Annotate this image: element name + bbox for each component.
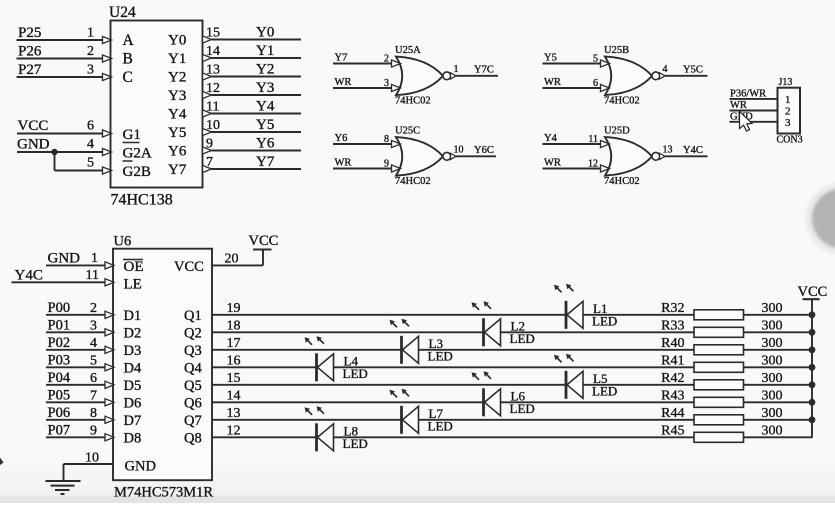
wire VCC to U24 pin 6 [17,118,112,137]
svg-text:300: 300 [762,301,783,316]
resistor R33 300 [661,318,782,337]
svg-text:7: 7 [206,155,213,170]
wire U24 pin 15 net Y0 [203,25,302,44]
svg-text:74HC02: 74HC02 [395,96,431,107]
junction dot on GND net [51,149,57,155]
svg-text:D8: D8 [124,430,142,446]
svg-text:Y0: Y0 [256,25,274,41]
svg-text:300: 300 [762,388,783,403]
svg-text:300: 300 [762,371,783,386]
svg-text:LED: LED [510,401,535,416]
wire input pin 5 of U25B [543,54,610,68]
svg-text:Q8: Q8 [184,430,202,446]
wire input pin 3 of U25A [333,78,401,92]
svg-text:D6: D6 [124,395,142,411]
wire WR to J13 pin 2 [730,100,778,111]
svg-text:300: 300 [762,423,783,438]
svg-text:R40: R40 [661,336,684,351]
svg-text:Y4C: Y4C [683,145,703,156]
svg-text:P05: P05 [48,388,71,404]
svg-text:C: C [123,69,133,86]
svg-text:GND: GND [17,137,50,153]
svg-text:P06: P06 [48,405,71,421]
svg-text:Q1: Q1 [184,308,202,324]
resistor R44 300 [661,406,782,425]
resistor R45 300 [661,423,782,442]
wire R33 to VCC rail [744,331,813,333]
svg-text:Y4: Y4 [256,99,275,115]
svg-text:G2A: G2A [123,146,152,162]
svg-text:P25: P25 [18,25,41,41]
svg-text:D2: D2 [124,325,142,341]
svg-text:6: 6 [90,371,97,386]
svg-text:Q3: Q3 [184,343,202,359]
svg-text:Y3: Y3 [256,80,274,96]
svg-text:LED: LED [343,366,368,381]
wire U6 pin 16 (Q4) to resistor R41 [212,353,695,368]
svg-text:P02: P02 [48,335,71,351]
wire R41 to VCC rail [744,366,813,368]
wire U24 pin 14 net Y1 [203,43,302,62]
svg-text:D7: D7 [124,413,142,429]
wire P04 to U6 pin 6 (D5) [46,370,114,388]
LED L1 [554,284,617,329]
svg-text:2: 2 [90,301,97,316]
svg-text:WR: WR [730,100,747,111]
svg-text:WR: WR [335,158,352,169]
wire R32 to VCC rail [744,314,813,316]
svg-text:Y2: Y2 [256,62,274,78]
svg-text:CON3: CON3 [777,135,803,146]
wire R43 to VCC rail [744,401,813,403]
wire P05 to U6 pin 7 (D6) [46,388,114,406]
LED L8 [305,406,368,451]
wire output pin 4 of U25B net Y5C [663,64,708,76]
junction dot VCC rail row 4 [809,364,816,371]
svg-text:R42: R42 [661,371,684,386]
svg-text:U24: U24 [109,4,136,21]
LED L5 [554,354,617,399]
svg-text:D1: D1 [124,308,142,324]
svg-text:9: 9 [206,137,213,152]
wire P02 to U6 pin 4 (D3) [46,335,114,353]
svg-text:LED: LED [510,331,535,346]
svg-text:15: 15 [227,371,241,386]
wire P25 to U24 pin 1 [17,25,112,44]
svg-text:D4: D4 [124,360,142,376]
wire P03 to U6 pin 5 (D4) [46,353,114,371]
svg-text:12: 12 [206,81,220,96]
svg-text:1: 1 [785,94,791,106]
svg-text:P26: P26 [18,44,42,60]
NOR gate U25C 74HC02 [395,126,456,188]
svg-text:M74HC573M1R: M74HC573M1R [114,485,213,501]
wire U24 pin 12 net Y3 [203,80,302,99]
svg-text:16: 16 [227,353,241,368]
ground symbol [46,481,81,494]
VCC power symbol (rail) [798,284,828,300]
resistor R42 300 [661,371,782,390]
svg-text:OE: OE [124,259,144,275]
svg-text:Q2: Q2 [184,325,202,341]
svg-text:P00: P00 [48,300,71,316]
svg-text:Q5: Q5 [184,378,202,394]
svg-text:LE: LE [124,277,142,293]
junction dot VCC rail row 2 [809,329,816,336]
wire output pin 13 of U25D net Y4C [663,144,708,156]
svg-text:Y5: Y5 [256,117,274,133]
svg-text:LED: LED [343,436,368,451]
svg-text:4: 4 [663,64,668,75]
svg-text:R45: R45 [661,423,684,438]
svg-text:11: 11 [588,134,598,145]
svg-text:Y5C: Y5C [683,64,703,75]
svg-text:LED: LED [428,418,453,433]
svg-text:U25B: U25B [604,45,629,56]
VCC rail vertical wire [811,300,813,438]
svg-text:Q6: Q6 [184,395,202,411]
svg-text:Y3: Y3 [168,88,186,104]
svg-text:WR: WR [335,77,352,88]
svg-text:10: 10 [454,144,464,155]
wire U24 pin 11 net Y4 [203,99,302,118]
svg-text:U6: U6 [114,234,132,250]
svg-text:2: 2 [384,54,389,65]
svg-text:Y6: Y6 [168,144,187,160]
svg-text:Y0: Y0 [168,33,186,49]
svg-text:Y5: Y5 [168,125,186,141]
NOR gate U25B 74HC02 [604,45,665,107]
junction dot VCC rail row 1 [809,311,816,318]
svg-text:300: 300 [762,336,783,351]
svg-text:74HC02: 74HC02 [604,96,640,107]
svg-text:R33: R33 [661,318,684,333]
LED L4 [305,336,368,381]
wire input pin 6 of U25B [543,78,610,92]
svg-text:3: 3 [87,63,94,78]
svg-text:U25D: U25D [604,126,630,137]
junction dot VCC rail row 5 [809,381,816,388]
svg-text:18: 18 [227,318,241,333]
resistor R40 300 [661,336,782,355]
wire input pin 9 of U25C [333,159,401,173]
svg-text:Y4: Y4 [544,133,558,144]
wire U6 pin 14 (Q6) to resistor R43 [212,388,695,403]
svg-text:12: 12 [227,423,241,438]
svg-text:74HC02: 74HC02 [395,176,431,187]
svg-text:Y7: Y7 [168,162,187,178]
svg-text:Y5: Y5 [544,53,557,64]
svg-text:P03: P03 [48,353,71,369]
svg-text:10: 10 [85,450,99,465]
wire GND to J13 pin 3 [730,111,778,122]
svg-text:9: 9 [90,423,97,438]
svg-text:P27: P27 [18,62,42,78]
LED L3 [390,319,453,364]
svg-text:R44: R44 [661,406,684,421]
wire P26 to U24 pin 2 [17,44,112,63]
svg-text:13: 13 [227,406,241,421]
wire U6 pin 13 (Q7) to resistor R44 [212,406,695,421]
LED L7 [390,389,453,434]
svg-text:17: 17 [227,336,241,351]
wire output pin 1 of U25A net Y7C [454,64,499,76]
svg-text:1: 1 [454,64,459,75]
wire P00 to U6 pin 2 (D1) [46,300,114,318]
wire P06 to U6 pin 8 (D7) [46,405,114,423]
svg-text:20: 20 [225,251,239,266]
svg-text:5: 5 [87,156,94,171]
wire P01 to U6 pin 3 (D2) [46,318,114,336]
svg-text:1: 1 [91,251,98,266]
NOR gate U25D 74HC02 [604,126,665,188]
svg-text:Y7: Y7 [335,53,348,64]
wire P07 to U6 pin 9 (D8) [46,423,114,441]
resistor R32 300 [661,301,782,320]
svg-text:D5: D5 [124,378,142,394]
svg-text:VCC: VCC [18,118,49,134]
junction dot VCC rail row 3 [809,346,816,353]
svg-text:14: 14 [227,388,241,403]
svg-text:Y7: Y7 [256,154,275,170]
svg-text:6: 6 [87,119,94,134]
svg-text:Y4: Y4 [168,107,187,123]
svg-text:U25A: U25A [395,45,421,56]
svg-text:Q4: Q4 [184,360,202,376]
wire R40 to VCC rail [744,349,813,351]
svg-text:14: 14 [206,44,220,59]
small cursor mark at left edge [0,458,4,466]
wire P27 to U24 pin 3 [17,62,112,81]
junction dot VCC rail row 6 [809,399,816,406]
connector J13 CON3 body [777,77,803,146]
svg-text:A: A [123,32,135,49]
LED L2 [472,301,535,346]
wire U6 pin 15 (Q5) to resistor R42 [212,371,695,386]
svg-text:11: 11 [86,268,99,283]
junction dot VCC rail row 7 [809,416,816,423]
svg-text:1: 1 [87,26,94,41]
svg-text:15: 15 [206,26,220,41]
svg-text:R32: R32 [661,301,684,316]
svg-text:D3: D3 [124,343,142,359]
svg-text:Y6: Y6 [335,133,348,144]
svg-text:LED: LED [428,348,453,363]
svg-text:P01: P01 [48,318,71,334]
svg-text:74HC138: 74HC138 [111,192,173,209]
svg-text:G1: G1 [123,127,141,143]
svg-text:2: 2 [87,44,94,59]
wire GND branch to U24 pin 5 [55,152,112,174]
svg-text:Y7C: Y7C [474,64,494,75]
svg-text:300: 300 [762,353,783,368]
wire input pin 12 of U25D [543,159,610,173]
svg-text:3: 3 [384,78,389,89]
svg-text:Y2: Y2 [168,70,186,86]
svg-text:4: 4 [90,336,97,351]
wire output pin 10 of U25C net Y6C [454,144,497,156]
wire U6 pin 19 (Q1) to resistor R32 [212,301,695,316]
svg-text:VCC: VCC [798,284,828,300]
svg-text:6: 6 [593,78,598,89]
svg-text:J13: J13 [779,77,793,88]
resistor R41 300 [661,353,782,372]
svg-text:Q7: Q7 [184,413,202,429]
wire U6 pin 17 (Q3) to resistor R40 [212,336,695,351]
svg-text:VCC: VCC [174,259,204,275]
svg-text:300: 300 [762,318,783,333]
wire U6 pin 18 (Q2) to resistor R33 [212,318,695,333]
svg-text:GND: GND [125,459,156,475]
svg-text:Y4C: Y4C [15,267,43,283]
wire R44 to VCC rail [744,419,813,421]
svg-text:5: 5 [593,54,598,65]
wire R42 to VCC rail [744,384,813,386]
wire input pin 11 of U25D [543,134,610,148]
wire GND to U24 pin 4 [17,137,112,156]
wire GND to U6 pin 1 (OE) [46,250,114,269]
svg-text:GND: GND [48,250,81,266]
svg-text:P07: P07 [48,423,71,439]
svg-text:11: 11 [206,100,219,115]
svg-text:8: 8 [384,134,389,145]
VCC power symbol (U6) [249,233,279,250]
svg-text:3: 3 [785,117,791,129]
svg-text:Y1: Y1 [256,43,274,59]
IC U6 M74HC573M1R latch body [113,234,213,501]
svg-text:U25C: U25C [395,126,420,137]
svg-text:WR: WR [544,158,561,169]
svg-text:13: 13 [206,63,220,78]
wire U6 pin 10 to ground [64,450,114,481]
wire R45 to VCC rail [744,436,813,438]
svg-text:9: 9 [384,159,389,170]
wire U6 pin 20 to VCC [212,250,263,267]
LED L6 [472,371,535,416]
svg-text:10: 10 [206,118,220,133]
svg-text:B: B [123,51,133,68]
svg-text:R43: R43 [661,388,684,403]
svg-text:3: 3 [90,318,97,333]
svg-text:P04: P04 [48,370,71,386]
decorative gray circle (video watermark, right edge) [806,182,835,255]
svg-text:WR: WR [544,77,561,88]
wire input pin 8 of U25C [333,134,401,148]
wire U24 pin 13 net Y2 [203,62,302,81]
resistor R43 300 [661,388,782,407]
wire P36/WR to J13 pin 1 [730,88,778,99]
IC U24 74HC138 decoder body [109,4,203,209]
svg-text:74HC02: 74HC02 [604,176,640,187]
NOR gate U25A 74HC02 [395,45,456,107]
svg-text:8: 8 [90,406,97,421]
svg-text:13: 13 [663,144,673,155]
svg-text:5: 5 [90,353,97,368]
svg-text:G2B: G2B [123,164,151,180]
svg-text:LED: LED [592,313,617,328]
svg-text:VCC: VCC [249,233,279,249]
svg-text:Y1: Y1 [168,51,186,67]
svg-text:4: 4 [87,137,94,152]
svg-text:19: 19 [227,301,241,316]
svg-text:300: 300 [762,406,783,421]
wire U6 pin 12 (Q8) to resistor R45 [212,423,695,438]
wire U24 pin 7 net Y7 [203,154,302,173]
svg-text:LED: LED [592,383,617,398]
wire U24 pin 9 net Y6 [203,136,302,155]
mouse cursor arrow [740,112,753,132]
svg-text:Y6: Y6 [256,136,275,152]
svg-text:R41: R41 [661,353,684,368]
svg-text:Y6C: Y6C [474,145,494,156]
wire input pin 2 of U25A [333,54,401,68]
svg-text:7: 7 [90,388,97,403]
svg-text:12: 12 [588,159,598,170]
svg-text:2: 2 [785,106,791,118]
wire U24 pin 10 net Y5 [203,117,302,136]
wire Y4C to U6 pin 11 (LE) [12,267,115,286]
svg-text:P36/WR: P36/WR [730,88,766,99]
